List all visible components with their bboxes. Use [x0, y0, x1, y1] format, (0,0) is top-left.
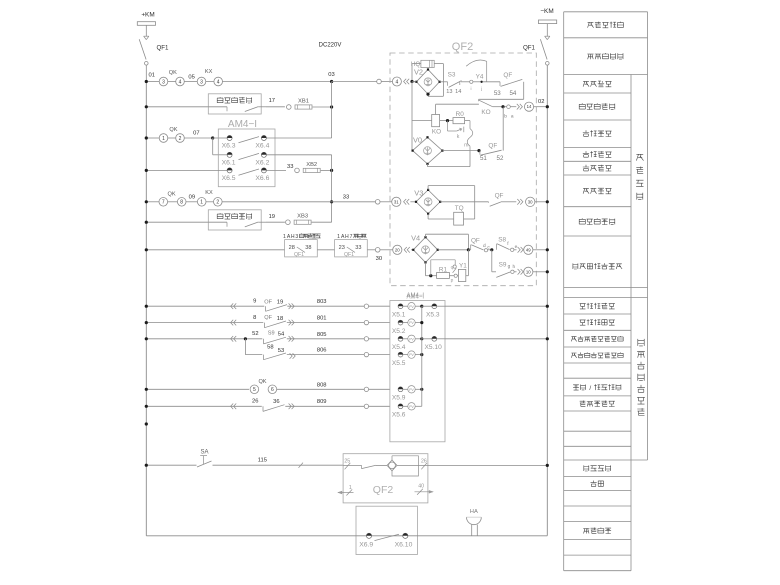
svg-text:18: 18 — [277, 316, 283, 322]
wire node49 to right bus — [533, 249, 547, 251]
terminal small circle row-806 — [364, 352, 368, 356]
svg-text:h: h — [512, 264, 515, 270]
svg-text:b: b — [504, 114, 507, 120]
svg-text:V3: V3 — [414, 188, 423, 197]
svg-text:3: 3 — [200, 79, 203, 85]
rectifier bridge V2 — [416, 70, 439, 95]
wire row standby-closing — [146, 106, 208, 108]
plug contact KX pins 3-4 — [197, 77, 206, 86]
svg-text:X6.4: X6.4 — [255, 143, 269, 150]
contact row-809 26-36 — [262, 403, 286, 408]
plug contact QK pins 1-2 — [159, 134, 168, 143]
contact QF row-803 — [264, 303, 287, 309]
terminal X6.6 — [261, 168, 266, 173]
svg-text:X5.5: X5.5 — [392, 360, 406, 367]
vertical tie X6.2/XB2/XB3 to node 33 — [331, 155, 333, 222]
svg-text:S8: S8 — [498, 236, 506, 243]
terminal small circle row-33 — [375, 200, 380, 205]
svg-text:3: 3 — [295, 234, 298, 240]
svg-text:52: 52 — [497, 155, 504, 162]
svg-text:X5.2: X5.2 — [392, 328, 406, 335]
node 49 circle — [524, 245, 533, 254]
terminal small circle row-803 — [364, 304, 368, 308]
svg-text:a: a — [511, 115, 514, 120]
wire X5.3 to right bus — [445, 305, 547, 307]
svg-text:X6.6: X6.6 — [255, 175, 269, 182]
svg-text:QF: QF — [471, 238, 480, 245]
svg-text:X5.10: X5.10 — [425, 344, 443, 351]
fuse F+ (control supply +KM) — [137, 22, 155, 26]
svg-text:33: 33 — [343, 194, 349, 200]
contact S8 row-806 — [262, 352, 287, 357]
legend row supervisory opening — [583, 130, 612, 136]
svg-text:KO: KO — [481, 109, 490, 116]
plug contact QK pins 7-8 — [159, 198, 168, 207]
svg-text:X5.4: X5.4 — [392, 344, 406, 351]
svg-text:QF: QF — [488, 143, 497, 150]
legend row supervisory tripping — [583, 151, 612, 157]
connector link XB1 — [287, 105, 292, 110]
svg-text:QF2: QF2 — [373, 484, 394, 496]
svg-text:38: 38 — [305, 245, 311, 251]
cable mark >> row-30out — [517, 199, 520, 205]
legend row control bus wire — [588, 22, 624, 28]
svg-text:4: 4 — [217, 79, 220, 85]
wire HQ right leg — [442, 64, 444, 97]
svg-text:d: d — [483, 243, 486, 249]
svg-text:i: i — [470, 86, 471, 91]
svg-text:QK: QK — [258, 379, 266, 385]
fuse F- (control supply -KM) — [539, 20, 557, 24]
legend row manual opening — [583, 188, 612, 194]
svg-text:QF: QF — [503, 72, 512, 79]
svg-text:KO: KO — [432, 129, 441, 136]
node 14 circle — [524, 102, 533, 111]
wire KO coil top to pivot — [435, 104, 437, 114]
svg-text:AM4−I: AM4−I — [406, 293, 424, 299]
breaker QF1 left pole — [144, 35, 149, 37]
wire X6.6 to node 33 — [266, 169, 286, 171]
wire node 30 — [367, 249, 375, 251]
svg-text:X5.3: X5.3 — [426, 312, 440, 319]
legend column switch-input circuit (vertical) — [637, 339, 645, 416]
svg-text:19: 19 — [269, 214, 275, 220]
svg-text:33: 33 — [287, 164, 293, 170]
legend row breaker open position — [580, 319, 615, 325]
box standby-auto-trip (bei zi tou tiao zha) — [208, 210, 261, 230]
anti-pump relay contact KO b-a — [478, 99, 480, 101]
wire node14 to right bus — [534, 106, 548, 108]
svg-text:58: 58 — [267, 345, 273, 351]
contact X6.1-X6.2 — [239, 153, 260, 159]
svg-text:X5.1: X5.1 — [392, 312, 406, 319]
svg-text:X6.2: X6.2 — [255, 159, 269, 166]
svg-text:QF1: QF1 — [344, 252, 354, 258]
svg-text:8: 8 — [180, 200, 183, 206]
breaker QF1 right pole — [545, 35, 550, 37]
svg-text:5: 5 — [253, 387, 256, 393]
svg-text:j: j — [480, 86, 482, 91]
wire V0 bottom return — [427, 164, 429, 167]
svg-text:S3: S3 — [448, 71, 456, 78]
vertical DC feed from node4 to V0 — [411, 82, 413, 151]
terminal X6.1 — [227, 152, 232, 157]
wire row-806 branch — [244, 339, 246, 355]
svg-text:X5.6: X5.6 — [392, 412, 406, 419]
wire row-809 — [146, 405, 364, 407]
svg-text:10: 10 — [526, 269, 531, 274]
terminal X6.10 — [403, 533, 408, 538]
svg-text:07: 07 — [193, 130, 199, 136]
rectifier bridge V3 — [416, 190, 440, 214]
spring-charge motor box QF2 — [343, 454, 428, 503]
wire row-01 — [146, 81, 159, 83]
anti-pump relay coil KO — [432, 115, 440, 127]
wire row-805 — [146, 338, 364, 340]
svg-text:03: 03 — [328, 72, 334, 78]
contact S9 row-805 — [262, 336, 287, 341]
wire node 33 to trip entry — [332, 201, 376, 203]
legend row miniature circuit breaker — [587, 53, 623, 59]
svg-text:KX: KX — [205, 190, 213, 196]
svg-text:QF: QF — [495, 193, 504, 200]
svg-text:9: 9 — [253, 298, 256, 304]
left vertical bus + — [145, 82, 147, 536]
wire 03-to-XB1 vertical — [331, 82, 333, 139]
svg-text:k: k — [457, 134, 460, 140]
indicator lamp X5.4 / terminal X5.10 row — [398, 336, 403, 341]
box 1AH3 main incoming QF1 contact 28-38 — [299, 233, 320, 238]
svg-text:31: 31 — [394, 199, 399, 204]
cable mark >> row-02 — [517, 104, 520, 110]
wire motor box to right bus — [428, 464, 547, 466]
svg-text:30: 30 — [376, 256, 382, 262]
legend row energy storage circuit — [584, 465, 611, 471]
terminal small circle row-01 — [377, 79, 382, 84]
terminal 26 of motor box — [397, 464, 428, 466]
svg-text:+KM: +KM — [141, 11, 154, 18]
wire row X6.5 from bus — [146, 169, 227, 171]
legend row earthing — [591, 481, 604, 487]
bottom common wire — [145, 535, 147, 537]
legend column control circuit (vertical) — [636, 154, 643, 199]
wire KO coil left to DC minus — [412, 120, 432, 122]
wire row-803 — [146, 305, 364, 307]
legend row remote/local indication — [573, 384, 621, 390]
box standby-auto-close (bei zi tou he zha) — [208, 94, 261, 114]
svg-text:4: 4 — [396, 79, 399, 85]
svg-text:q: q — [451, 266, 454, 271]
wire row standby-trip — [146, 221, 208, 223]
box 1AH7 bus-section QF1 contact 23-33 — [353, 234, 366, 239]
contact inside QF2 motor box — [361, 465, 363, 468]
wire node 19 — [266, 221, 285, 223]
legend row standby-auto tripping — [579, 218, 615, 224]
wire row-808 — [146, 388, 364, 390]
svg-text:52: 52 — [252, 331, 258, 337]
wire row-804 — [146, 322, 364, 324]
node 20 entry circle — [393, 245, 402, 254]
svg-text:g: g — [508, 265, 511, 270]
svg-text:XB3: XB3 — [297, 214, 308, 220]
svg-text:54: 54 — [278, 332, 285, 338]
svg-text:Y1: Y1 — [459, 263, 467, 270]
svg-text:QF1: QF1 — [523, 44, 536, 51]
svg-text:805: 805 — [317, 332, 327, 338]
plug contact KX pins 1-2 — [197, 198, 206, 207]
svg-text:e: e — [515, 245, 518, 250]
legend row truck test position indication — [571, 352, 623, 358]
terminal small circle row-30 — [375, 248, 380, 253]
svg-text:PV: PV — [409, 353, 414, 357]
wire row-07 — [146, 137, 159, 139]
wire row-09 — [146, 201, 159, 203]
svg-text:AM4−I: AM4−I — [228, 119, 257, 130]
svg-text:17: 17 — [269, 98, 275, 104]
wire row-30 from bus — [146, 249, 284, 251]
svg-text:PV: PV — [409, 388, 414, 392]
terminal X6.3 — [227, 136, 232, 141]
wire V3 DC top loop — [427, 186, 429, 190]
node 30 circle — [526, 197, 535, 206]
wire X6.2 out right — [266, 154, 331, 156]
contact X6.5-X6.6 — [239, 169, 260, 175]
svg-text:TQ: TQ — [455, 205, 464, 212]
svg-text:28: 28 — [289, 245, 295, 251]
svg-text:1: 1 — [200, 200, 203, 206]
svg-text:49: 49 — [526, 247, 531, 252]
svg-text:4: 4 — [179, 79, 182, 85]
svg-text:QF1: QF1 — [294, 252, 304, 258]
right vertical bus - — [546, 65, 548, 536]
wire 09 to node 33 — [222, 201, 332, 203]
svg-text:02: 02 — [538, 99, 544, 105]
svg-text:SA: SA — [200, 450, 208, 456]
legend row manual closing — [583, 81, 612, 87]
wire V4 AC out — [438, 249, 469, 251]
svg-text:13: 13 — [446, 89, 452, 95]
svg-text:2: 2 — [179, 136, 182, 142]
svg-text:53: 53 — [494, 90, 501, 97]
svg-text:808: 808 — [317, 382, 327, 388]
wire V3 AC out — [440, 201, 488, 203]
svg-text:PV: PV — [409, 321, 414, 325]
svg-text:PV: PV — [409, 305, 414, 309]
svg-text:26: 26 — [252, 399, 258, 405]
svg-text:51: 51 — [480, 155, 487, 162]
svg-text:14: 14 — [455, 89, 461, 95]
svg-text:S9: S9 — [268, 330, 275, 336]
legend row standby-auto closing — [579, 103, 615, 109]
wire KO contact to node 14 — [505, 106, 507, 108]
contact inside standby-close box — [208, 106, 227, 108]
wire node10 to right bus — [533, 271, 547, 273]
legend row protection tripping — [583, 165, 612, 171]
cable mark << row-01 — [404, 79, 407, 85]
cable mark >> row-49 — [518, 247, 521, 253]
rectifier bridge V4 — [413, 237, 437, 262]
svg-text:115: 115 — [258, 458, 267, 464]
charging motor symbol — [389, 462, 396, 469]
contact q-p across R1 — [430, 260, 432, 276]
Y4 linkage arc — [466, 60, 487, 66]
svg-text:3: 3 — [162, 79, 165, 85]
indicator lamp X5.2 — [398, 320, 403, 325]
terminal X6.5 — [227, 168, 232, 173]
junction dot spare on bus — [145, 422, 148, 425]
wire branch to S9 row — [491, 250, 493, 272]
connector link XB3 — [286, 220, 291, 225]
svg-text:QF2: QF2 — [452, 41, 473, 53]
svg-text:H: H — [291, 234, 295, 240]
plug contact QK pins 5-6 — [249, 384, 277, 394]
wire R0 right leg with armature spring m — [465, 120, 470, 122]
terminal X6.9 — [366, 533, 371, 538]
box X6.9/X6.10 terminals — [356, 506, 417, 554]
svg-text:8: 8 — [253, 315, 256, 321]
contact X6.3-X6.4 — [239, 137, 260, 143]
svg-text:X6.1: X6.1 — [222, 159, 236, 166]
contact QF row-804 — [263, 320, 287, 326]
indicator lamp X5.9 — [398, 387, 403, 392]
plug contact QK pins 3-4 — [159, 77, 168, 86]
wire 52 up to KO node — [502, 107, 504, 151]
svg-text:S9: S9 — [499, 262, 507, 269]
connector link XB2 — [295, 168, 300, 173]
svg-text:X6.3: X6.3 — [222, 143, 236, 150]
node 4 entry circle — [392, 77, 401, 86]
svg-text:X6.5: X6.5 — [222, 175, 236, 182]
wire 54 down to KO contact — [523, 82, 525, 100]
legend row spring not charged — [580, 401, 615, 407]
svg-text:801: 801 — [317, 316, 327, 322]
svg-text:/: / — [589, 385, 591, 392]
contact X6.9-X6.10 — [373, 530, 402, 535]
rectifier bridge V0 — [413, 137, 443, 164]
svg-text:X6.9: X6.9 — [359, 541, 373, 548]
indicator lamp X5.5 — [398, 352, 403, 357]
wire tick mark 115 — [299, 463, 304, 468]
auxiliary switch k arrow — [447, 121, 449, 131]
wire V3 DC bottom to TQ — [427, 214, 429, 219]
svg-text:54: 54 — [509, 90, 516, 97]
svg-text:QF1: QF1 — [156, 44, 169, 51]
svg-text:H: H — [345, 234, 349, 240]
svg-text:19: 19 — [277, 299, 283, 305]
svg-text:803: 803 — [317, 299, 327, 305]
terminal small circle row-804 — [364, 320, 368, 324]
wire X5.10 to right bus — [445, 338, 547, 340]
indicator lamp X5.1 / terminal X5.3 row — [398, 304, 403, 309]
wire node30 to right bus — [535, 201, 547, 203]
svg-text:V0: V0 — [413, 136, 422, 145]
svg-text:p: p — [451, 278, 454, 283]
svg-text:40: 40 — [418, 484, 424, 490]
svg-text:6: 6 — [271, 387, 274, 393]
svg-text:53: 53 — [278, 348, 284, 354]
svg-text:QK: QK — [169, 127, 177, 133]
lamp common vertical — [421, 306, 423, 406]
terminal small circle row-805 — [364, 337, 368, 341]
terminal X6.2 — [261, 152, 266, 157]
svg-text:QK: QK — [168, 191, 176, 197]
legend row closing latch electromagnet — [573, 263, 622, 269]
terminal X6.4 — [261, 136, 266, 141]
svg-text:23: 23 — [339, 245, 345, 251]
svg-text:33: 33 — [355, 245, 361, 251]
svg-text:Y4: Y4 — [476, 74, 484, 81]
wire X6.4 up to XB1 node — [266, 137, 331, 139]
svg-text:m: m — [464, 142, 468, 148]
legend row alarm signal — [583, 528, 611, 534]
svg-text:XB1: XB1 — [298, 98, 309, 104]
svg-text:XB2: XB2 — [306, 162, 317, 168]
svg-text:09: 09 — [189, 195, 195, 201]
svg-text:806: 806 — [317, 348, 327, 354]
svg-text:−KM: −KM — [540, 8, 553, 15]
legend table frame — [563, 12, 565, 571]
wire V4 DC top loop — [425, 234, 427, 237]
cable mark << row-30 — [404, 247, 407, 253]
wire 03 to QF2 cubicle — [223, 81, 332, 83]
svg-text:1: 1 — [283, 234, 286, 240]
indicator lamp X5.6 — [398, 404, 403, 409]
contact inside standby-trip box — [208, 221, 227, 223]
node 31 entry circle — [392, 197, 401, 206]
svg-text:DC220V: DC220V — [319, 43, 342, 49]
svg-text:7: 7 — [350, 234, 353, 240]
wire V0 output row — [442, 150, 479, 152]
svg-text:X5.9: X5.9 — [392, 395, 406, 402]
svg-text:36: 36 — [273, 399, 279, 405]
svg-text:2: 2 — [216, 200, 219, 206]
svg-text:14: 14 — [527, 104, 532, 109]
svg-text:V4: V4 — [411, 234, 420, 243]
terminal small circle row-809 — [364, 404, 368, 408]
svg-text:7: 7 — [162, 200, 165, 206]
svg-text:20: 20 — [395, 247, 400, 252]
wire branch 07 to X6.1 — [212, 138, 214, 155]
motor bypass rectangle — [392, 456, 418, 476]
svg-text:KX: KX — [205, 69, 213, 75]
svg-text:PV: PV — [409, 405, 414, 409]
wire between cubicle boxes — [317, 249, 334, 251]
legend row breaker closed position — [580, 303, 615, 309]
svg-text:30: 30 — [528, 199, 533, 204]
svg-text:PV: PV — [409, 337, 414, 341]
svg-text:1: 1 — [162, 136, 165, 142]
cable mark >> row-10 — [518, 269, 521, 275]
svg-text:QK: QK — [169, 70, 177, 76]
wire node 17 — [266, 106, 285, 108]
svg-text:HA: HA — [470, 509, 478, 515]
legend row truck run position indication — [571, 336, 623, 342]
svg-text:V2: V2 — [414, 67, 423, 76]
wire row-SA — [146, 464, 196, 466]
terminal small circle row-808 — [364, 387, 368, 391]
wire Y1 return up — [457, 275, 458, 277]
node 10 circle — [524, 267, 533, 276]
wire node 05 — [184, 81, 197, 83]
svg-text:05: 05 — [188, 74, 194, 80]
svg-text:1: 1 — [337, 234, 340, 240]
svg-text:R0: R0 — [456, 111, 465, 118]
cable mark << row-33 — [404, 199, 407, 205]
svg-text:X6.10: X6.10 — [395, 541, 413, 548]
svg-text:809: 809 — [317, 399, 327, 405]
svg-text:01: 01 — [148, 73, 154, 79]
